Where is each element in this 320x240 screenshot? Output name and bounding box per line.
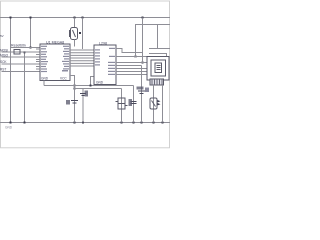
right stub x157 from y24 bbox=[157, 25, 159, 49]
svg-text:L298: L298 bbox=[99, 42, 107, 46]
sheet background bbox=[0, 0, 170, 150]
VCC top bus wire bbox=[0, 17, 170, 19]
vert x121 wire bbox=[121, 89, 123, 123]
right wire y53 elbow bbox=[149, 54, 167, 57]
IC U1 box bbox=[40, 44, 70, 81]
svg-text:SCK: SCK bbox=[0, 60, 7, 64]
C1 label blob bbox=[66, 100, 70, 105]
U1 left pin stubs bbox=[36, 49, 40, 69]
rail x30 wire bbox=[30, 18, 32, 48]
left wire y71.5 bbox=[2, 71, 41, 73]
C5 label blob bbox=[137, 87, 144, 90]
U1 bottom-right pin wire bbox=[70, 76, 75, 86]
cap C4 at x133 bbox=[131, 102, 137, 104]
C4 label blob bbox=[129, 99, 133, 106]
electrolytic cap C3 at x121 bbox=[116, 98, 128, 109]
svg-text:U1 MEGA8: U1 MEGA8 bbox=[46, 41, 64, 45]
rail x24 wire bbox=[24, 52, 26, 123]
U2 right wire y56 bbox=[116, 56, 147, 58]
C2 label blob bbox=[85, 91, 89, 97]
U2 inner pin blobs left bbox=[95, 49, 100, 65]
U1 bottom-left gnd wire bbox=[43, 81, 45, 86]
right rail x142 wire bbox=[142, 18, 144, 63]
svg-text:GND: GND bbox=[96, 81, 104, 85]
U2 right wire y68 bbox=[116, 68, 147, 70]
vert x74 lower wire bbox=[74, 86, 76, 123]
right top wire y24 bbox=[136, 25, 171, 58]
bus y88.5 wire bbox=[75, 88, 122, 90]
D1 arrows bbox=[158, 100, 161, 105]
vert x133 wire bbox=[133, 86, 135, 123]
xtal2 wire x82 bbox=[82, 18, 84, 50]
left wire y51.5 with button S1 bbox=[2, 51, 41, 53]
motor connector mid box bbox=[151, 60, 166, 76]
U2 right wire y48 jog bbox=[116, 49, 143, 53]
motor connector outer box bbox=[147, 57, 169, 81]
U2 inner pin blobs right bbox=[108, 48, 115, 75]
U2 right wire y74 bbox=[116, 74, 147, 76]
capacitor C1 at x74 bbox=[71, 101, 78, 104]
right wire y48 bbox=[149, 48, 170, 50]
crystal Y1 branch wire bbox=[74, 18, 76, 28]
GND bottom bus wire bbox=[0, 122, 170, 124]
U1 inner pin name blobs right bbox=[62, 46, 69, 70]
capacitor C2 at x83 bbox=[80, 94, 86, 96]
node bus dots bbox=[10, 17, 164, 124]
svg-text:GND: GND bbox=[41, 77, 49, 81]
hatched connector box bbox=[150, 79, 164, 85]
diode D1 at x153 bbox=[150, 98, 157, 109]
svg-text:ResetBtn: ResetBtn bbox=[11, 44, 26, 48]
reset wire y47 bbox=[11, 47, 41, 49]
vert x83 lower wire bbox=[82, 89, 84, 123]
motor connector core bars bbox=[157, 66, 161, 70]
svg-text:RST: RST bbox=[0, 68, 6, 72]
rail x10 wire bbox=[10, 18, 12, 123]
U2 gnd left wire bbox=[91, 77, 95, 86]
U2 right wire y71 bbox=[116, 71, 147, 73]
svg-text:VCC: VCC bbox=[60, 77, 67, 81]
svg-text:5V: 5V bbox=[0, 34, 4, 38]
vert x141 wire bbox=[141, 66, 143, 123]
crystal Y1 bbox=[70, 28, 78, 40]
crystal lower wire bbox=[74, 40, 76, 47]
label M1 bbox=[145, 88, 149, 93]
U1 inner pin name blobs left bbox=[41, 46, 48, 72]
sheet border frame bbox=[1, 1, 170, 148]
vert x153.5 wire bbox=[153, 85, 155, 123]
svg-text:GND: GND bbox=[5, 126, 13, 130]
vert x162.5 wire bbox=[162, 85, 164, 123]
U2 right wire y65 bbox=[116, 65, 142, 67]
left wire y56.5 bbox=[2, 56, 41, 58]
U1-U2 bundle wires bbox=[70, 50, 94, 66]
left wire y64 bbox=[2, 63, 41, 65]
U2 right wire y62 bbox=[116, 62, 147, 64]
motor connector inner box bbox=[155, 63, 162, 73]
bus y85.5 wire bbox=[44, 85, 134, 87]
button S1 bbox=[14, 50, 20, 55]
cap C5 at x141 bbox=[138, 91, 145, 94]
IC U2 box bbox=[94, 45, 116, 85]
